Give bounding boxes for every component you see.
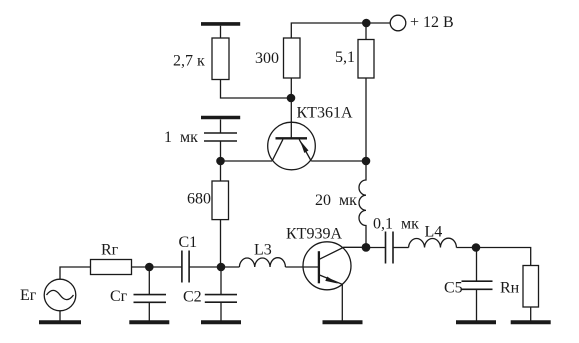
op transistor KT361A circle [268, 122, 316, 170]
wire (R 5,1 bottom to node C) [365, 78, 367, 161]
wire (C1 to L3) [189, 266, 239, 268]
resistor Rn body [523, 266, 539, 308]
inductor 20uF (choke) [359, 161, 366, 248]
wire (C2 bottom plate to ground) [220, 302, 222, 320]
wire (Cg bottom plate to ground) [148, 302, 150, 320]
svg-text:C1: C1 [179, 234, 198, 251]
wire (ground to R 2,7k top) [220, 26, 222, 38]
wire (Eg top to Rg) [60, 267, 91, 280]
wire (L4 to node E) [456, 247, 476, 249]
wire (Rn bottom to ground) [530, 307, 532, 321]
svg-text:Rг: Rг [101, 242, 119, 259]
capacitor Cg plates [134, 295, 167, 303]
resistor Rg body [91, 260, 132, 275]
capacitor C2 plates [205, 295, 237, 303]
svg-text:5,1: 5,1 [335, 49, 355, 66]
generator Eg circle [44, 279, 76, 311]
wire (R 2,7k bottom to node B) [221, 80, 292, 99]
terminal +12V [390, 15, 406, 31]
transistor KT939A base bar [318, 251, 320, 283]
svg-text:Ег: Ег [20, 287, 37, 304]
wire (R 300 bottom to transistor base through node B) [290, 78, 292, 138]
node D (collector / 0,1uF junction) [362, 243, 371, 252]
ground (below Eg) [39, 320, 81, 324]
wire (node E to Rn top) [476, 248, 531, 266]
transistor KT361A emitter lead [299, 139, 311, 161]
svg-text:КТ361А: КТ361А [297, 105, 353, 122]
resistor 2,7 k body [212, 38, 229, 80]
wire (Eg bottom to ground) [59, 311, 61, 321]
node (Cg junction) [145, 263, 154, 272]
svg-text:C5: C5 [444, 280, 463, 297]
wire (top rail to +12V) [291, 23, 390, 38]
wire (C 0,1uF to L4) [393, 247, 409, 249]
wire (L3 to KT939A base) [285, 266, 319, 268]
resistor 5,1 body [358, 40, 374, 79]
svg-text:0,1 мк: 0,1 мк [373, 216, 419, 233]
svg-text:Rн: Rн [500, 280, 520, 297]
wire (C5 bottom plate to ground) [476, 289, 478, 320]
wire (ground to 1uF top plate) [220, 120, 222, 134]
wire (node A to R 680 top) [220, 161, 222, 181]
svg-text:680: 680 [187, 191, 211, 208]
ground (top, above R 2,7k) [201, 22, 240, 26]
transistor KT939A circle [303, 242, 351, 290]
svg-text:20 мк: 20 мк [315, 192, 357, 209]
node E (output junction) [472, 243, 481, 252]
resistor 300 body [284, 38, 301, 78]
wire (node to Cg top plate) [148, 267, 150, 295]
svg-text:Сг: Сг [110, 288, 128, 305]
ground (below Cg) [129, 320, 169, 324]
node (C2 / 680 junction) [217, 263, 226, 272]
ground (below KT939A) [323, 320, 363, 324]
inductor L4 [409, 238, 457, 247]
capacitor 0,1uF plates [386, 232, 394, 264]
wire (node D to C 0,1uF) [366, 247, 386, 249]
transistor KT361A emitter arrow (PNP) [300, 140, 309, 153]
transistor KT939A emitter arrow (NPN) [325, 277, 338, 284]
node (rail junction above R 5,1) [362, 19, 371, 28]
node B (bias divider junction) [287, 94, 296, 103]
wire (KT939A emitter to ground) [341, 284, 343, 320]
svg-text:КТ939А: КТ939А [286, 226, 342, 243]
svg-text:L4: L4 [425, 224, 443, 241]
transistor KT939A collector lead [320, 247, 367, 259]
generator Eg sine [47, 290, 74, 299]
ground (above capacitor 1uF) [201, 116, 240, 120]
svg-text:L3: L3 [254, 242, 272, 259]
wire (emitter to node C) [311, 160, 366, 162]
wire (rail to R 5,1 top) [365, 23, 367, 40]
wire (Rg to C1) [132, 266, 182, 268]
capacitor C5 plates [462, 281, 493, 289]
svg-text:2,7 к: 2,7 к [173, 53, 205, 70]
svg-text:C2: C2 [183, 289, 202, 306]
svg-text:1 мк: 1 мк [164, 129, 198, 146]
capacitor 1uF plates [204, 133, 237, 141]
ground (below C2) [201, 320, 241, 324]
ground (below C5) [456, 320, 496, 324]
node A (collector / 680 junction) [216, 157, 225, 166]
wire (collector to node 1uF/680) [221, 160, 273, 162]
capacitor C1 plates [182, 251, 189, 283]
svg-text:+ 12 В: + 12 В [410, 14, 454, 31]
resistor 680 body [212, 181, 229, 220]
ground (below Rn) [511, 320, 551, 324]
inductor L3 [239, 258, 285, 267]
wire (1uF bottom plate to node A) [220, 141, 222, 161]
svg-text:300: 300 [255, 50, 279, 67]
node C (emitter / L 20uF junction) [362, 157, 371, 166]
transistor KT939A emitter lead [319, 275, 342, 284]
wire (node to C2 top plate) [220, 267, 222, 295]
transistor KT361A base bar [276, 137, 308, 139]
wire (node E to C5 top plate) [476, 248, 478, 282]
transistor KT361A collector lead [272, 139, 283, 161]
wire (R 680 bottom to input node) [220, 220, 222, 267]
